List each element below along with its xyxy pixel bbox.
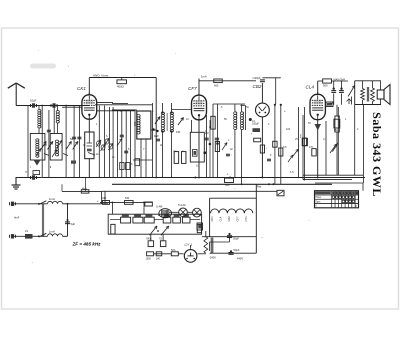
svg-text:LS: LS xyxy=(25,230,28,233)
svg-text:CB2: CB2 xyxy=(227,216,231,222)
svg-text:7Ω: 7Ω xyxy=(159,239,162,241)
svg-text:-240V: -240V xyxy=(209,255,216,259)
svg-text:440V: 440V xyxy=(237,257,243,261)
svg-text:1mH: 1mH xyxy=(49,197,55,201)
svg-text:50µF: 50µF xyxy=(234,248,240,252)
svg-text:MW: MW xyxy=(154,134,159,138)
svg-text:0,1: 0,1 xyxy=(252,120,256,123)
svg-text:460: 460 xyxy=(214,84,219,88)
svg-text:·: · xyxy=(28,94,29,98)
svg-text:Ω: Ω xyxy=(209,126,211,129)
svg-text:4kΩ: 4kΩ xyxy=(82,186,87,190)
svg-text:30µF: 30µF xyxy=(233,236,239,240)
svg-text:Hörer: Hörer xyxy=(315,196,321,199)
svg-text:4mF: 4mF xyxy=(14,216,20,220)
svg-text:TL12A: TL12A xyxy=(178,203,186,207)
svg-text:×: × xyxy=(355,204,357,208)
svg-text:Saba 343 GWL: Saba 343 GWL xyxy=(370,112,384,197)
svg-text:CL4: CL4 xyxy=(306,85,315,90)
svg-text:5µF: 5µF xyxy=(71,222,76,226)
svg-text:400Ω: 400Ω xyxy=(117,85,124,89)
svg-text:CF7: CF7 xyxy=(235,216,239,222)
svg-text:MΩ: MΩ xyxy=(334,129,338,132)
svg-text:CB2: CB2 xyxy=(253,84,262,89)
svg-text:ZF = 485 kHz: ZF = 485 kHz xyxy=(72,242,102,247)
svg-text:CK1: CK1 xyxy=(77,86,86,91)
svg-text:540: 540 xyxy=(125,197,130,200)
svg-text:555: 555 xyxy=(133,121,137,126)
svg-text:0,1: 0,1 xyxy=(323,138,327,141)
svg-text:52A: 52A xyxy=(171,249,176,252)
svg-text:Spre.: Spre. xyxy=(315,200,321,203)
svg-text:1,5: 1,5 xyxy=(290,171,294,174)
svg-text:↕100pF: ↕100pF xyxy=(252,76,261,80)
svg-text:0,1: 0,1 xyxy=(196,164,200,168)
svg-text:U: U xyxy=(315,205,317,208)
svg-text:CY1: CY1 xyxy=(244,216,248,222)
svg-text:ANO. Vorw.: ANO. Vorw. xyxy=(92,73,109,77)
svg-text:1mH: 1mH xyxy=(49,230,55,234)
svg-text:Rai: Rai xyxy=(257,185,262,189)
svg-text:500: 500 xyxy=(225,183,230,187)
svg-text:500: 500 xyxy=(323,84,328,88)
svg-text:CL4: CL4 xyxy=(219,216,223,221)
svg-text:100: 100 xyxy=(286,128,291,131)
svg-text:780Ω: 780Ω xyxy=(146,239,152,241)
svg-text:MA9·GM4: MA9·GM4 xyxy=(334,79,346,82)
svg-text:CK1: CK1 xyxy=(210,216,214,222)
svg-text:U AM: U AM xyxy=(156,205,162,209)
svg-text:KW: KW xyxy=(176,130,181,134)
svg-text:0,5: 0,5 xyxy=(283,146,287,149)
svg-text:240: 240 xyxy=(156,258,161,261)
svg-text:10pF: 10pF xyxy=(30,99,37,103)
svg-text:P: P xyxy=(26,170,28,174)
svg-text:CF7: CF7 xyxy=(188,86,197,91)
svg-text:1500: 1500 xyxy=(146,258,152,261)
svg-text:240: 240 xyxy=(102,197,107,200)
svg-text:1mA: 1mA xyxy=(201,75,207,79)
